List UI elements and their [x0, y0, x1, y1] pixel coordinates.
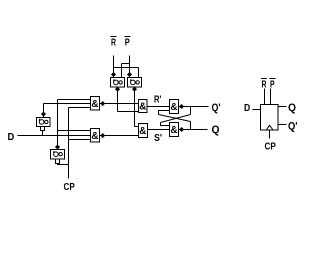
nand gate G2 box (top right rotated)	[128, 78, 142, 88]
nand gate B box	[91, 129, 100, 143]
wire N1 to gate A input2 horizontal	[44, 103, 91, 105]
wire ff Q output	[279, 106, 287, 108]
wire row1 P-bar branch horizontal	[122, 63, 130, 65]
wire row1 drop vertical	[121, 64, 123, 78]
junction dot gate F output	[179, 127, 184, 132]
wire Q' output horizontal	[179, 106, 209, 108]
inverter N1 negation square	[41, 127, 45, 131]
svg-text:R': R'	[154, 95, 161, 106]
overline of R-bar	[111, 36, 117, 38]
svg-text:&: &	[170, 102, 177, 113]
wire feedback diagonal E-to-F	[159, 115, 191, 122]
svg-text:D: D	[8, 132, 15, 143]
svg-text:Q': Q'	[288, 121, 298, 133]
ff symbol box	[261, 105, 279, 131]
rotated ampersand gate G2	[131, 80, 136, 85]
wire ff Q' output	[279, 124, 287, 126]
wire feedback right upper vertical	[190, 107, 192, 115]
svg-text:CP: CP	[64, 182, 76, 193]
wire gate D output S' horizontal	[148, 129, 170, 131]
svg-text:&: &	[91, 131, 98, 142]
svg-text:S': S'	[154, 133, 162, 144]
wire gate C output R' horizontal	[147, 106, 170, 108]
wire A input1 horizontal	[58, 99, 91, 101]
wire row2 drop vertical	[138, 68, 140, 78]
nand gate G1 box (top left rotated)	[111, 78, 125, 88]
overline of ff R-bar	[261, 78, 267, 80]
wire ff CP vertical	[269, 131, 271, 139]
svg-text:R: R	[262, 80, 268, 91]
junction dot gate E output	[179, 104, 184, 109]
svg-text:P: P	[125, 38, 130, 49]
wire G2 to gate D horizontal	[135, 126, 139, 128]
nand gate C box	[139, 100, 148, 113]
wire feedback right lower vertical	[190, 122, 192, 130]
junction dot R-bar pin	[111, 72, 116, 77]
junction dot P-bar pin	[127, 72, 132, 77]
wire G1 to gate C horizontal	[118, 111, 139, 113]
wire R-bar vertical	[113, 56, 115, 78]
rotated ampersand inverter N1	[39, 120, 44, 125]
wire D input horizontal	[18, 135, 91, 137]
svg-text:P: P	[270, 80, 275, 91]
wire output stub gate G1	[117, 88, 119, 112]
ff clock triangle	[267, 125, 273, 129]
wire feedback E input stub	[159, 111, 170, 115]
rotated ampersand inverter N2	[54, 152, 59, 157]
wire inverter N2 output jog	[58, 164, 69, 165]
junction dot N1 output	[41, 111, 46, 116]
wire output stub gate G2	[134, 88, 136, 127]
wire feedback F input stub	[161, 123, 170, 126]
svg-text:Q': Q'	[212, 102, 221, 114]
wire gate B output horizontal	[100, 135, 139, 137]
svg-text:Q: Q	[288, 102, 296, 114]
inverter N1 box (D)	[37, 118, 51, 127]
svg-text:&: &	[170, 125, 177, 136]
nand gate A box	[91, 97, 100, 111]
inverter N2 box (CP)	[51, 150, 65, 160]
wire A input3 horizontal	[69, 107, 91, 109]
junction dot N2 output	[55, 144, 60, 149]
rotated ampersand gate G1	[114, 80, 119, 85]
wire inverter N1 output vertical	[43, 104, 45, 118]
wire inverter N1 input stub	[42, 131, 44, 136]
overline of P-bar	[125, 36, 131, 38]
wire B input1 horizontal	[58, 130, 91, 132]
junction dot gate A output	[100, 101, 105, 106]
inverter N2 negation square	[56, 159, 60, 164]
wire ff D input	[253, 109, 261, 111]
wire gate A output horizontal	[100, 103, 139, 105]
svg-text:&: &	[139, 102, 146, 113]
svg-text:Q: Q	[212, 124, 220, 136]
wire V1 vertical	[57, 100, 59, 150]
svg-text:&: &	[139, 126, 146, 137]
junction dot G2 output	[132, 87, 137, 92]
wire P-bar vertical	[129, 56, 131, 78]
wire B input3 horizontal	[69, 139, 91, 141]
svg-text:&: &	[91, 99, 98, 110]
wire row2 R-bar branch horizontal	[114, 67, 139, 69]
overline of ff P-bar	[270, 78, 276, 80]
nand gate F box	[170, 123, 179, 137]
wire ff R-bar vertical	[264, 89, 266, 105]
wire Q output horizontal	[179, 129, 208, 131]
nand gate E box	[170, 100, 179, 114]
svg-text:CP: CP	[265, 142, 277, 153]
svg-text:R: R	[111, 38, 117, 49]
svg-text:D: D	[244, 103, 250, 114]
junction dot G1 output	[115, 87, 120, 92]
junction dot gate B output	[100, 133, 105, 138]
wire feedback diagonal F-to-E	[161, 115, 191, 123]
wire V2 CP vertical	[68, 108, 70, 179]
wire ff P-bar vertical	[270, 89, 272, 105]
nand gate D box	[139, 124, 148, 138]
